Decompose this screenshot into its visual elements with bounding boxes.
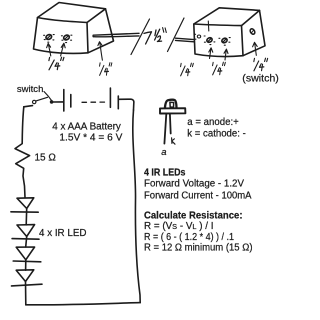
svg-text:k = cathode: -: k = cathode: - bbox=[187, 128, 246, 139]
svg-text:4 x AAA Battery: 4 x AAA Battery bbox=[52, 121, 121, 132]
svg-text:15 Ω: 15 Ω bbox=[35, 152, 57, 163]
svg-text:R = ( 6 - ( 1.2 * 4) ) / .1: R = ( 6 - ( 1.2 * 4) ) / .1 bbox=[144, 232, 234, 243]
svg-text:Forward Current - 100mA: Forward Current - 100mA bbox=[144, 190, 252, 201]
svg-text:a = anode:+: a = anode:+ bbox=[187, 117, 239, 128]
svg-text:1.5V * 4 = 6 V: 1.5V * 4 = 6 V bbox=[59, 132, 122, 143]
svg-text:4 IR LEDs: 4 IR LEDs bbox=[144, 168, 186, 179]
svg-text:(switch): (switch) bbox=[242, 74, 278, 85]
svg-text:R = 12 Ω minimum (15 Ω): R = 12 Ω minimum (15 Ω) bbox=[144, 242, 253, 253]
svg-text:a: a bbox=[161, 147, 166, 158]
svg-text:Calculate Resistance:: Calculate Resistance: bbox=[144, 210, 243, 221]
svg-text:Forward Voltage - 1.2V: Forward Voltage - 1.2V bbox=[144, 178, 244, 189]
svg-text:switch: switch bbox=[17, 84, 44, 95]
svg-text:R = (VS - VL ) / I: R = (VS - VL ) / I bbox=[144, 221, 214, 232]
svg-text:4 x IR LED: 4 x IR LED bbox=[39, 227, 87, 239]
